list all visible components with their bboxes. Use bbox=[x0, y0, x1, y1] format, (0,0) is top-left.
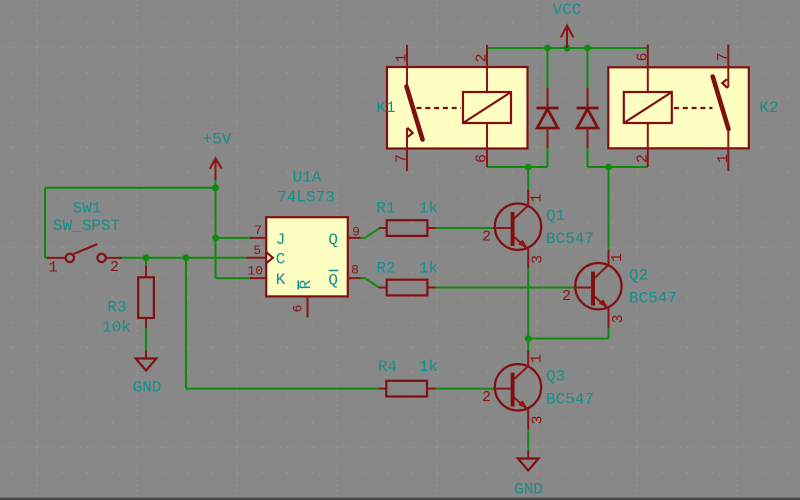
wire bbox=[587, 148, 589, 167]
svg-text:BC547: BC547 bbox=[546, 391, 594, 409]
svg-text:1: 1 bbox=[529, 354, 546, 363]
K2 pin 6 line bbox=[647, 45, 649, 93]
wire bbox=[608, 167, 610, 250]
K1 body bbox=[387, 67, 528, 149]
K1 pin 2 line bbox=[486, 45, 488, 92]
R3 top lead bbox=[145, 266, 147, 277]
U1A pin 6 line bbox=[307, 297, 309, 318]
junction bbox=[584, 45, 591, 52]
wire bbox=[587, 48, 589, 88]
svg-text:7: 7 bbox=[394, 154, 411, 163]
wire bbox=[215, 179, 217, 238]
wire bbox=[527, 268, 529, 339]
U1A clock marker bbox=[267, 252, 273, 263]
svg-text:VCC: VCC bbox=[553, 1, 582, 19]
junction bbox=[564, 45, 571, 52]
U1A body bbox=[266, 217, 348, 296]
junction bbox=[525, 335, 532, 342]
Q1 base bar bbox=[511, 212, 515, 246]
D2 cathode bar bbox=[577, 107, 599, 110]
svg-text:Q1: Q1 bbox=[546, 207, 565, 225]
Q1 collector line bbox=[513, 190, 528, 220]
svg-text:R1: R1 bbox=[376, 200, 395, 218]
wire bbox=[487, 166, 548, 168]
resistor R4 bbox=[378, 358, 438, 397]
Q2 base bar bbox=[591, 272, 595, 306]
wire bbox=[436, 388, 494, 390]
svg-text:SW_SPST: SW_SPST bbox=[53, 217, 120, 235]
junction bbox=[212, 235, 219, 242]
Q3 emitter arrow bbox=[518, 400, 527, 409]
Q2 collector line bbox=[593, 250, 608, 279]
R4 left lead bbox=[379, 388, 387, 390]
Q3 base bar bbox=[511, 373, 515, 407]
transistor Q1 bbox=[482, 190, 594, 268]
switch SW1 bbox=[47, 200, 122, 277]
Q2 emitter line bbox=[593, 296, 608, 329]
svg-text:2: 2 bbox=[482, 389, 491, 406]
R2 body bbox=[387, 280, 428, 296]
svg-text:Q: Q bbox=[328, 272, 338, 290]
K1 coil bbox=[463, 92, 511, 123]
wire bbox=[527, 167, 529, 192]
+5V arrow head bbox=[210, 158, 222, 169]
ground (below Q3) bbox=[514, 451, 543, 499]
wire bbox=[45, 187, 216, 189]
relay K2 bbox=[608, 45, 778, 172]
wire bbox=[216, 237, 254, 239]
svg-text:10: 10 bbox=[247, 264, 263, 279]
svg-text:R4: R4 bbox=[378, 358, 397, 376]
svg-text:K: K bbox=[276, 271, 286, 289]
U1A pin 8 line bbox=[348, 277, 361, 279]
U1A pin 9 line bbox=[348, 237, 361, 239]
svg-text:6: 6 bbox=[290, 305, 305, 313]
Q1 emitter line bbox=[513, 236, 528, 268]
K2 body bbox=[608, 67, 749, 148]
wire bbox=[145, 326, 147, 351]
wire bbox=[436, 287, 574, 289]
K2 dashed link bbox=[674, 107, 713, 109]
svg-text:2: 2 bbox=[634, 154, 651, 163]
wire bbox=[45, 257, 50, 259]
svg-text:1k: 1k bbox=[419, 260, 438, 278]
SW1 lever bbox=[74, 244, 98, 254]
svg-text:K2: K2 bbox=[759, 99, 778, 117]
svg-text:3: 3 bbox=[530, 415, 547, 424]
K2 pin 1 line bbox=[727, 129, 729, 171]
svg-text:1k: 1k bbox=[419, 200, 438, 218]
+5V arrow stem bbox=[215, 158, 217, 180]
svg-text:1k: 1k bbox=[419, 358, 438, 376]
wire bbox=[361, 278, 380, 287]
svg-text:1: 1 bbox=[394, 53, 411, 62]
junction bbox=[212, 184, 219, 191]
diode D1 bbox=[537, 88, 559, 148]
SW1 right contact bbox=[97, 254, 105, 262]
wire bbox=[186, 388, 379, 390]
svg-text:Q3: Q3 bbox=[546, 368, 565, 386]
wire bbox=[588, 166, 648, 168]
wire bbox=[487, 47, 648, 49]
junction bbox=[525, 164, 532, 171]
svg-text:GND: GND bbox=[514, 481, 543, 499]
K1 contact notch bbox=[407, 128, 412, 137]
K1 pin 6 line bbox=[486, 123, 488, 167]
svg-text:K1: K1 bbox=[376, 99, 395, 117]
R2 left lead bbox=[379, 287, 387, 289]
svg-text:1: 1 bbox=[715, 154, 732, 163]
svg-text:J: J bbox=[276, 231, 286, 249]
svg-text:R: R bbox=[297, 279, 315, 289]
R4 right lead bbox=[427, 388, 436, 390]
R1 left lead bbox=[379, 227, 387, 229]
svg-text:5: 5 bbox=[253, 243, 261, 258]
R4 body bbox=[386, 381, 427, 397]
bottom edge band bbox=[0, 497, 800, 499]
Q3 base pin bbox=[493, 388, 511, 390]
Q1 emitter arrow bbox=[518, 240, 527, 249]
SW1 left contact bbox=[66, 254, 74, 262]
svg-text:7: 7 bbox=[715, 52, 732, 61]
SW1 pin 2 bbox=[106, 257, 122, 259]
VCC arrow head bbox=[561, 26, 574, 38]
svg-text:BC547: BC547 bbox=[546, 230, 594, 248]
svg-text:2: 2 bbox=[482, 229, 491, 246]
wire bbox=[608, 328, 610, 339]
Q1 circle bbox=[495, 204, 541, 250]
ground stem bbox=[527, 451, 529, 459]
svg-text:2: 2 bbox=[562, 288, 571, 305]
wire bbox=[436, 227, 494, 229]
ground stem bbox=[145, 351, 147, 359]
D1 anode pin bbox=[547, 128, 549, 148]
svg-text:6: 6 bbox=[474, 154, 491, 163]
U1A pin 7 line bbox=[250, 237, 267, 239]
wire bbox=[117, 257, 246, 259]
D1 cathode bar bbox=[537, 107, 559, 110]
svg-text:R3: R3 bbox=[107, 299, 126, 317]
Q3 emitter line bbox=[513, 397, 528, 429]
resistor R2 bbox=[376, 260, 438, 296]
K2 pin 2 line bbox=[647, 123, 649, 167]
Q2 base pin bbox=[574, 287, 592, 289]
svg-text:10k: 10k bbox=[102, 319, 131, 337]
K1 pin 7 line bbox=[406, 128, 408, 171]
svg-text:Q2: Q2 bbox=[629, 267, 648, 285]
svg-text:Q: Q bbox=[328, 231, 338, 249]
power symbol +5V bbox=[203, 131, 232, 181]
ground (below R3) bbox=[133, 351, 162, 397]
Q2 emitter arrow bbox=[599, 299, 608, 308]
transistor Q2 bbox=[562, 250, 677, 328]
junction bbox=[544, 45, 551, 52]
wire bbox=[527, 339, 529, 352]
ground triangle bbox=[518, 459, 539, 471]
power symbol VCC bbox=[553, 1, 582, 48]
SW1 pin 1 bbox=[47, 257, 66, 259]
R1 body bbox=[387, 220, 428, 236]
R3 bottom lead bbox=[145, 318, 147, 328]
wire bbox=[528, 338, 608, 340]
R1 right lead bbox=[427, 227, 435, 229]
K2 contact notch bbox=[722, 79, 727, 88]
K2 switch arm bbox=[713, 77, 729, 130]
svg-text:U1A: U1A bbox=[293, 169, 322, 187]
svg-text:9: 9 bbox=[352, 225, 360, 240]
flip-flop U1A bbox=[246, 169, 360, 318]
wire bbox=[547, 48, 549, 88]
wire bbox=[216, 277, 254, 279]
R3 body bbox=[138, 277, 154, 318]
U1A pin 10 line bbox=[250, 277, 267, 279]
svg-text:8: 8 bbox=[351, 263, 359, 278]
svg-text:1: 1 bbox=[609, 253, 626, 262]
wire bbox=[44, 188, 46, 258]
diode D2 bbox=[577, 88, 599, 148]
R2 right lead bbox=[427, 287, 435, 289]
wire bbox=[361, 228, 380, 238]
VCC arrow stem bbox=[566, 26, 568, 49]
svg-text:GND: GND bbox=[133, 379, 162, 397]
transistor Q3 bbox=[482, 351, 594, 429]
junction bbox=[183, 254, 190, 261]
resistor R3 bbox=[102, 266, 154, 337]
wire bbox=[145, 258, 147, 268]
D1 triangle bbox=[537, 109, 558, 128]
svg-text:3: 3 bbox=[530, 255, 547, 264]
svg-text:2: 2 bbox=[110, 259, 119, 276]
D2 triangle bbox=[577, 109, 598, 128]
svg-text:2: 2 bbox=[474, 53, 491, 62]
K1 dashed link bbox=[417, 107, 462, 109]
K1 switch arm bbox=[407, 87, 423, 140]
svg-text:6: 6 bbox=[634, 52, 651, 61]
svg-text:1: 1 bbox=[48, 260, 57, 277]
svg-text:7: 7 bbox=[254, 223, 262, 238]
svg-text:SW1: SW1 bbox=[73, 200, 102, 218]
K1 pin 1 line bbox=[406, 45, 408, 87]
junction bbox=[605, 164, 612, 171]
resistor R1 bbox=[376, 200, 438, 236]
svg-text:R2: R2 bbox=[376, 260, 395, 278]
svg-text:C: C bbox=[276, 251, 286, 269]
svg-text:74LS73: 74LS73 bbox=[277, 189, 335, 207]
K2 pin 7 line bbox=[727, 45, 729, 88]
D2 anode pin bbox=[587, 128, 589, 148]
svg-text:3: 3 bbox=[610, 314, 627, 323]
Q3 collector line bbox=[513, 351, 528, 380]
svg-text:1: 1 bbox=[529, 193, 546, 202]
ground triangle bbox=[136, 359, 157, 371]
D2 cathode pin bbox=[587, 88, 589, 108]
relay K1 bbox=[376, 45, 527, 171]
wire bbox=[185, 258, 187, 389]
Q3 circle bbox=[495, 364, 541, 410]
K2 coil bbox=[624, 92, 672, 123]
D1 cathode pin bbox=[547, 88, 549, 108]
Q2 circle bbox=[575, 263, 621, 309]
U1A pin 5 line bbox=[246, 257, 266, 259]
wire bbox=[215, 238, 217, 278]
wire bbox=[527, 429, 529, 451]
junction bbox=[143, 254, 150, 261]
wire bbox=[547, 148, 549, 167]
svg-text:+5V: +5V bbox=[203, 131, 232, 149]
Q1 base pin bbox=[493, 227, 511, 229]
svg-text:BC547: BC547 bbox=[629, 290, 677, 308]
